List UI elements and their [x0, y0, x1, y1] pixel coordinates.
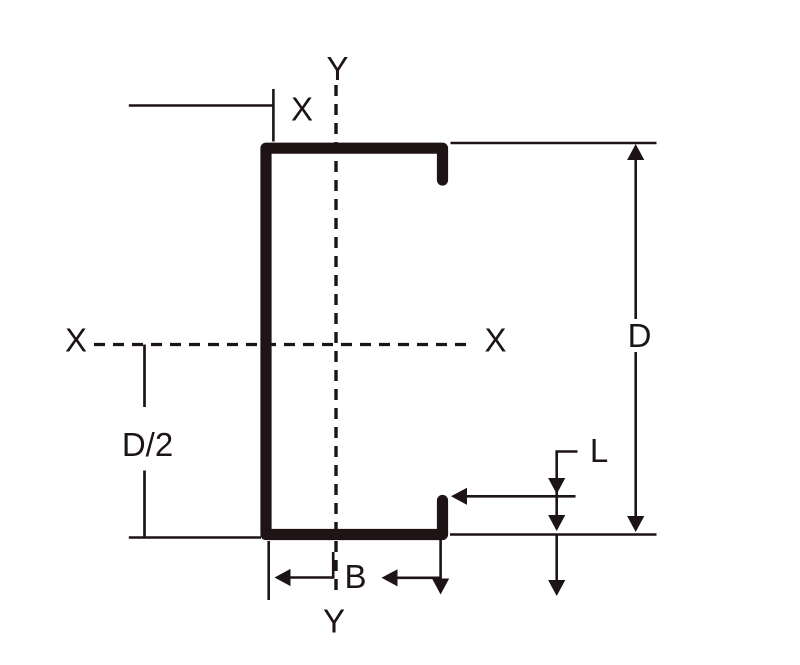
B left dimension line [288, 576, 335, 579]
D dimension upper arrowhead [627, 144, 644, 160]
B left arrowhead [275, 569, 291, 586]
L middle arrowhead [548, 515, 565, 531]
D dimension line lower segment [634, 352, 637, 518]
bottom-left extension line [129, 536, 261, 539]
bottom-right extension line [450, 533, 657, 536]
X axis dashed centerline [94, 343, 469, 346]
svg-text:X: X [65, 322, 87, 359]
D/2 dimension line upper segment [143, 345, 146, 408]
lip extension line below flange [439, 538, 442, 580]
L dimension line below extension [555, 535, 558, 581]
B right dimension line [396, 576, 441, 579]
D dimension line upper segment [634, 158, 637, 319]
B right arrowhead [382, 569, 398, 586]
L upper arrowhead [548, 478, 565, 494]
svg-text:D/2: D/2 [122, 426, 173, 463]
lip extension arrowhead [432, 579, 449, 595]
svg-text:B: B [344, 558, 366, 595]
L lower arrowhead [548, 580, 565, 596]
svg-text:Y: Y [323, 603, 345, 640]
web extension line below (left of B arrows) [267, 541, 270, 600]
top-left tick [272, 89, 275, 142]
svg-text:Y: Y [326, 50, 348, 87]
svg-text:D: D [628, 317, 652, 354]
Y axis dashed centerline [334, 85, 337, 596]
lip pointer line [465, 495, 576, 498]
C-section profile [266, 148, 443, 534]
svg-text:X: X [484, 322, 506, 359]
L bracket horizontal [555, 450, 577, 453]
top-left leader line [129, 104, 274, 107]
D dimension lower arrowhead [627, 516, 644, 532]
svg-text:X: X [291, 91, 313, 128]
top extension line [451, 142, 657, 145]
lip pointer arrowhead [451, 488, 467, 505]
svg-text:L: L [590, 432, 608, 469]
B left riser [332, 552, 335, 578]
L dimension line upper segment [555, 452, 558, 519]
D/2 dimension line lower segment [143, 471, 146, 538]
